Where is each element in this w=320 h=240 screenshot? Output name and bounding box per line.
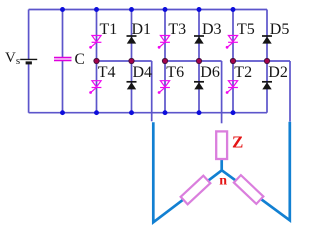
svg-text:D6: D6 [200, 64, 220, 81]
svg-text:T4: T4 [98, 64, 116, 81]
thyristor T4 [89, 81, 101, 94]
node mid D3 [196, 58, 201, 63]
diode D4 [127, 82, 137, 90]
wire load phase B stub [220, 159, 223, 171]
wire phase B mid [165, 60, 222, 62]
voltage source Vs [20, 59, 37, 63]
wire phase A mid [97, 60, 152, 62]
diode D5 [262, 36, 272, 44]
svg-text:T2: T2 [234, 64, 252, 81]
wire phase A tap [151, 61, 153, 121]
wire phase C tap [289, 61, 291, 122]
svg-text:T6: T6 [166, 64, 184, 81]
junction bottom leg5 [231, 110, 236, 115]
junction bottom C [60, 110, 65, 115]
svg-text:C: C [75, 51, 85, 68]
capacitor C [54, 58, 72, 61]
node mid D5 [264, 58, 269, 63]
wire leg D3 D6 [198, 10, 200, 113]
junction bottom leg3 [163, 110, 168, 115]
impedance Z phase B [216, 131, 227, 159]
thyristor T5 [226, 36, 238, 49]
node mid T1 [94, 58, 99, 63]
svg-text:T3: T3 [168, 21, 186, 38]
wire capacitor leg [62, 10, 64, 113]
wire load phase A [153, 122, 222, 222]
wire leg D5 D2 [266, 10, 268, 113]
svg-text:Z: Z [232, 133, 243, 152]
svg-text:D3: D3 [202, 21, 222, 38]
node mid T5 [230, 58, 235, 63]
impedance phase C [234, 175, 264, 204]
wire leg D1 D4 [131, 10, 133, 113]
wire leg T3 T6 [164, 10, 166, 113]
wire leg T5 T2 [232, 10, 234, 113]
svg-text:T1: T1 [100, 21, 118, 38]
thyristor T3 [158, 36, 170, 49]
wire leg T1 T4 [96, 10, 98, 113]
svg-text:D2: D2 [268, 64, 288, 81]
svg-text:n: n [219, 173, 227, 188]
thyristor T2 [226, 81, 238, 94]
svg-text:D5: D5 [270, 21, 290, 38]
junction top C [60, 7, 65, 12]
node mid T3 [162, 58, 167, 63]
junction bottom leg4 [197, 110, 202, 115]
wire phase C mid [233, 60, 290, 62]
diode D6 [194, 82, 204, 90]
junction top leg3 [163, 7, 168, 12]
diode D1 [127, 36, 137, 44]
junction top leg4 [197, 7, 202, 12]
thyristor T1 [89, 36, 101, 49]
wire phase B tap [221, 61, 223, 123]
junction top leg5 [231, 7, 236, 12]
diode D3 [194, 36, 204, 44]
wire bottom rail [29, 112, 267, 114]
diode D2 [262, 82, 272, 90]
svg-text:D4: D4 [133, 64, 153, 81]
junction top leg2 [129, 7, 134, 12]
svg-text:T5: T5 [237, 21, 255, 38]
svg-text:Vs: Vs [5, 50, 20, 67]
junction top leg1 [94, 7, 99, 12]
wire left source branch [28, 10, 30, 113]
wire top rail [29, 9, 267, 11]
junction bottom leg1 [94, 110, 99, 115]
wire load phase C [222, 122, 290, 221]
impedance phase A [181, 176, 211, 205]
node mid D1 [129, 58, 134, 63]
thyristor T6 [158, 81, 170, 94]
svg-text:D1: D1 [132, 21, 152, 38]
junction bottom leg2 [129, 110, 134, 115]
